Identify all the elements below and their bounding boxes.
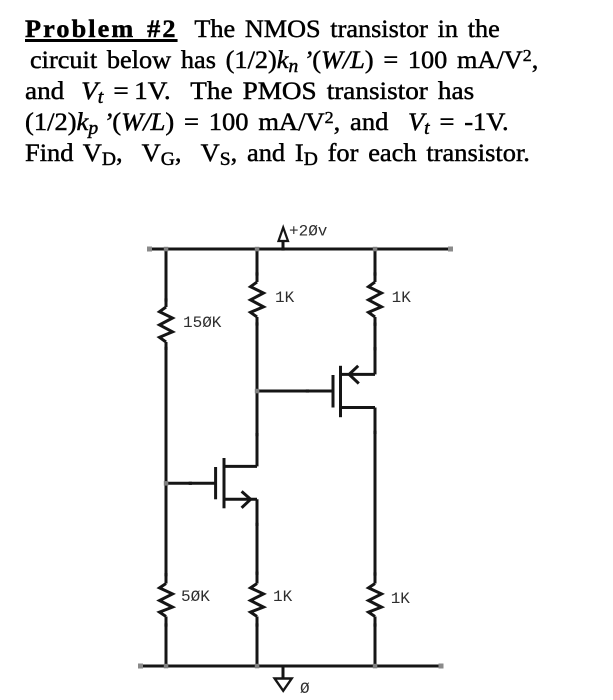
wire NMOS gate xyxy=(166,482,216,485)
transistor Q1 NMOS source lead xyxy=(224,498,257,501)
junction tick above R6 xyxy=(373,572,376,575)
problem statement text xyxy=(25,14,513,169)
node top rail / left branch xyxy=(164,247,169,252)
wire middle branch to NMOS drain xyxy=(256,317,259,466)
junction tick below Q2 drain xyxy=(373,431,376,434)
wire middle branch upper xyxy=(256,249,259,282)
junction tick Q1 gate wire xyxy=(189,482,192,485)
junction tick below R2 xyxy=(164,623,167,626)
junction tick below R4 xyxy=(255,623,258,626)
junction tick Q2 gate wire xyxy=(306,389,309,392)
wire left branch upper xyxy=(165,249,168,307)
ground triangle xyxy=(275,679,292,691)
wire end cap top rail right xyxy=(448,247,453,252)
junction tick below R1 xyxy=(164,347,167,350)
svg-text:+2Øv: +2Øv xyxy=(289,223,328,241)
junction tick +20v stem xyxy=(281,247,284,250)
wire left branch lower xyxy=(165,617,168,667)
resistor R5 1K top right xyxy=(369,282,382,317)
node bottom rail / left branch xyxy=(164,664,169,669)
ground stem xyxy=(282,666,285,679)
junction tick above R4 xyxy=(255,572,258,575)
wire left branch middle xyxy=(165,342,168,584)
resistor R3 1K top middle xyxy=(251,282,264,317)
transistor Q1 NMOS channel bar xyxy=(223,458,226,508)
svg-text:1K: 1K xyxy=(391,590,411,608)
wire bottom rail xyxy=(140,665,441,668)
transistor Q2 PMOS drain lead xyxy=(341,406,376,409)
wire top rail xyxy=(148,248,451,251)
resistor R4 1K bottom middle xyxy=(251,584,264,617)
svg-text:15ØK: 15ØK xyxy=(183,314,222,332)
junction tick below Q1 source xyxy=(255,523,258,526)
transistor Q2 PMOS arrow xyxy=(349,366,359,384)
wire end cap bottom rail left xyxy=(138,664,143,669)
wire PMOS gate xyxy=(257,390,333,393)
transistor Q2 PMOS gate bar xyxy=(332,375,335,408)
junction tick below R5 xyxy=(373,323,376,326)
wire end cap top rail left xyxy=(147,247,152,252)
junction tick below R6 xyxy=(373,623,376,626)
wire NMOS source down xyxy=(256,499,259,583)
junction tick middle branch above Q1 drain xyxy=(255,433,258,436)
svg-text:Ø: Ø xyxy=(300,680,310,698)
node top rail / middle branch xyxy=(255,247,259,252)
resistor R2 50K xyxy=(160,584,173,617)
wire end cap bottom rail right xyxy=(439,664,444,669)
transistor Q1 NMOS arrow xyxy=(242,491,251,507)
wire PMOS drain down xyxy=(374,408,377,584)
wire middle branch lower xyxy=(256,617,259,667)
power +20v stem xyxy=(282,240,285,249)
node top rail / right branch xyxy=(373,247,378,252)
transistor Q2 PMOS source lead xyxy=(341,373,376,376)
junction tick above R3 xyxy=(255,272,258,275)
svg-text:1K: 1K xyxy=(275,289,295,307)
junction tick above R2 xyxy=(164,573,167,576)
svg-text:1K: 1K xyxy=(392,289,412,307)
wire right branch to PMOS source xyxy=(374,317,377,374)
svg-text:1K: 1K xyxy=(273,588,293,606)
wire right branch upper xyxy=(374,249,377,282)
transistor Q1 NMOS drain lead xyxy=(224,465,257,468)
wire right branch lower xyxy=(374,617,377,667)
junction tick above R1 xyxy=(164,298,167,301)
junction tick above R5 xyxy=(373,272,376,275)
junction tick right branch upper xyxy=(373,347,376,350)
transistor Q2 PMOS channel bar xyxy=(339,366,342,417)
svg-text:5ØK: 5ØK xyxy=(181,588,210,606)
junction tick below R3 xyxy=(255,322,258,325)
transistor Q1 NMOS gate bar xyxy=(214,467,217,499)
power +20v arrowhead xyxy=(279,228,289,242)
resistor R1 150K xyxy=(160,307,173,342)
node bottom rail / right branch xyxy=(373,664,378,669)
node Q2 gate / middle branch xyxy=(255,389,259,394)
node Q1 gate / left branch xyxy=(164,481,169,486)
node bottom rail / middle branch xyxy=(255,664,259,669)
resistor R6 1K bottom right xyxy=(369,584,382,617)
